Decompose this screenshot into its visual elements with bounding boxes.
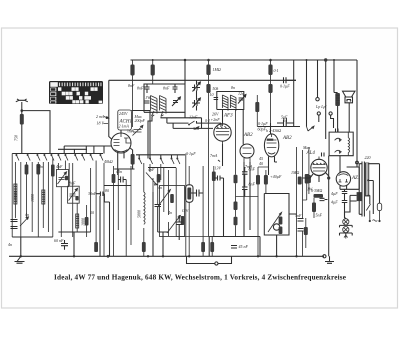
wire: mid box bottom <box>58 232 90 256</box>
svg-text:1W: 1W <box>307 187 313 192</box>
resistor tune3 <box>181 216 185 225</box>
terminal on bus right <box>323 255 326 258</box>
svg-text:220: 220 <box>365 155 371 160</box>
bottom sub-box <box>209 237 260 257</box>
svg-text:0·1: 0·1 <box>274 68 279 73</box>
IF1 caps left <box>145 84 150 93</box>
resistor 314 <box>312 203 316 213</box>
tube AB2 duo <box>264 134 278 157</box>
wire: mid link 185 <box>104 168 176 186</box>
svg-text:AB2: AB2 <box>282 136 292 141</box>
resistor horizontal 0.3M <box>314 194 324 198</box>
capacitor on OT <box>336 129 339 133</box>
svg-text:0·1: 0·1 <box>205 118 210 123</box>
wire: bottom ground bus <box>9 255 324 257</box>
circle jn right <box>356 161 359 164</box>
resistor 113.5 <box>112 174 116 183</box>
svg-text:5nF: 5nF <box>316 213 323 218</box>
capacitor 321 <box>320 198 328 200</box>
capacitor small b <box>176 215 183 240</box>
capacitor small a <box>155 205 162 233</box>
svg-text:5nF: 5nF <box>281 115 288 120</box>
PT primary winding <box>365 163 368 196</box>
resistor left A <box>25 165 29 175</box>
svg-text:40kΩ: 40kΩ <box>104 159 113 164</box>
trimmer Max200pF <box>131 125 143 135</box>
resistor 305.8 <box>304 227 308 235</box>
svg-text:Ideal, 4W 77 und Hagenuk, 648: Ideal, 4W 77 und Hagenuk, 648 KW, Wechse… <box>54 273 346 281</box>
resistor HT1 <box>130 65 134 76</box>
wire: AB2 bottom <box>244 162 250 237</box>
wire: det line <box>257 123 300 134</box>
svg-text:Max: Max <box>302 145 310 150</box>
svg-text:0·1µF: 0·1µF <box>280 84 290 89</box>
OT arrows <box>335 138 342 153</box>
junction dots on ground bus <box>20 255 298 257</box>
oscillator coil box <box>160 186 185 237</box>
wire: AF3 anode top <box>222 110 224 124</box>
IF1 winding P <box>151 96 167 114</box>
wire: band switch bus <box>12 153 103 155</box>
svg-text:5nF: 5nF <box>295 213 302 218</box>
tube ACH1 <box>111 133 131 153</box>
PT right leads <box>368 164 379 214</box>
resistor cathode ACH1 <box>131 154 135 165</box>
switch contacts row <box>16 155 174 164</box>
svg-text:4n: 4n <box>25 212 29 217</box>
wire: AZ1 bottom <box>340 167 359 191</box>
wire: AL4 lines <box>303 172 329 182</box>
wire: antenna lead <box>21 102 23 114</box>
ACH1 label frame <box>118 110 132 130</box>
speaker <box>343 91 356 103</box>
wire: ACH1 left inputs <box>64 146 111 154</box>
junction dot HT at 208.5 <box>207 59 210 62</box>
wire: v293.7 <box>293 60 295 123</box>
svg-text:30n: 30n <box>193 126 199 131</box>
wire: AB2 anode <box>242 110 244 145</box>
svg-text:7mA: 7mA <box>245 164 253 169</box>
mains wave mark <box>373 220 378 222</box>
IF1 caps right <box>173 84 178 93</box>
svg-text:20000: 20000 <box>13 191 18 201</box>
IF2 cap right <box>238 95 246 104</box>
svg-text:750: 750 <box>14 135 19 141</box>
ground left <box>15 256 25 263</box>
resistor 50k <box>206 84 210 93</box>
junction dot bus mid <box>107 255 110 258</box>
svg-text:2 mA: 2 mA <box>96 114 105 119</box>
svg-text:8n: 8n <box>231 85 235 90</box>
wires col 232.5 <box>236 110 259 237</box>
svg-text:1MΩ: 1MΩ <box>213 67 221 72</box>
resistor 1M <box>206 65 210 76</box>
coil L1 <box>14 184 17 204</box>
wire: heater run <box>345 201 351 218</box>
tube duo bottom leads <box>269 157 278 176</box>
coil L3 <box>76 214 79 228</box>
tap dots <box>367 180 369 182</box>
svg-text:30nF: 30nF <box>88 191 97 196</box>
resistor mains <box>377 203 381 210</box>
trimmer unit 1 <box>57 170 69 187</box>
coil L2 <box>42 190 45 204</box>
svg-text:26V: 26V <box>212 112 219 117</box>
svg-text:5000: 5000 <box>137 210 142 218</box>
svg-text:4n: 4n <box>8 242 12 247</box>
svg-text:50k: 50k <box>213 86 219 91</box>
verticals right-mid <box>297 147 309 256</box>
scattered value labels <box>25 83 371 217</box>
svg-text:0·1µF: 0·1µF <box>186 151 196 156</box>
PT heater winding <box>357 192 362 201</box>
terminal P2 <box>317 112 320 115</box>
svg-text:18 V: 18 V <box>97 121 105 126</box>
junction dot HT main <box>324 58 327 61</box>
band switch table S1 <box>49 81 103 104</box>
avc arrow <box>195 127 199 130</box>
left coil box verticals <box>12 154 48 238</box>
resistor above bus 3 <box>201 242 205 252</box>
svg-text:40n: 40n <box>37 164 43 169</box>
resistor pot a <box>279 217 283 225</box>
svg-text:4nF: 4nF <box>148 167 155 172</box>
top right verticals <box>307 60 358 164</box>
wire: coil feeder <box>58 146 94 154</box>
capacitor 5nF det <box>277 120 294 126</box>
capacitor 100 <box>97 192 110 257</box>
svg-text:0·3MΩ: 0·3MΩ <box>311 188 322 193</box>
wire: left box bottom <box>12 237 53 256</box>
tube AB2 small <box>240 144 254 162</box>
resistor det <box>255 102 259 112</box>
antenna <box>16 99 28 102</box>
resistor AL4 cathode <box>305 174 309 184</box>
capacitor 45nF <box>231 246 237 249</box>
resistor audio a <box>256 175 260 185</box>
wire: top HT bus <box>131 59 358 61</box>
junction dots on HT bus <box>152 59 335 61</box>
svg-text:1MΩ: 1MΩ <box>291 170 299 175</box>
field coil <box>335 93 340 106</box>
resistor left C <box>51 165 55 177</box>
wire: IF1 to grid AF3 <box>148 117 202 159</box>
resistor HT3 <box>268 65 272 76</box>
resistor col 232.5 lower <box>234 202 238 211</box>
svg-text:60 nF: 60 nF <box>54 238 64 243</box>
wire: avc line 128.4 <box>173 123 213 128</box>
svg-text:50: 50 <box>90 210 94 215</box>
volume box <box>264 194 289 236</box>
resistor col 232.5 upper <box>234 175 238 184</box>
capacitor 4uF b <box>342 201 348 219</box>
svg-text:h 2-43kΩ: h 2-43kΩ <box>266 128 281 133</box>
capacitor 60nF <box>61 240 68 250</box>
resistor mid3 <box>85 217 89 226</box>
wire: screen-grid bus <box>109 79 296 81</box>
pot arrow <box>268 212 282 232</box>
wire: speaker voice coil <box>348 103 350 132</box>
svg-text:10: 10 <box>210 92 214 97</box>
svg-text:45 nF: 45 nF <box>239 244 249 249</box>
svg-text:GW: GW <box>182 208 189 213</box>
capacitor 218 <box>214 176 224 237</box>
capacitor osc <box>191 190 203 197</box>
IF1 secondary leads <box>152 111 164 117</box>
dial lamp 2 <box>343 227 349 233</box>
IF transformer 1 can <box>144 84 185 112</box>
ground right <box>325 256 334 263</box>
svg-text:AL4: AL4 <box>306 151 316 156</box>
resistor 299.7 <box>298 177 302 185</box>
wire: mid cluster bottom joins <box>153 192 169 256</box>
wire: osc coupling verticals <box>185 80 197 123</box>
resistor left B <box>36 164 40 175</box>
svg-text:8nF: 8nF <box>69 181 76 186</box>
trimmer mid5 <box>158 164 171 215</box>
resistor osc <box>187 188 191 200</box>
resistor HT2 <box>151 65 155 76</box>
resistor tune2 <box>170 194 174 203</box>
capacitor 8nF c <box>242 172 248 174</box>
wire: left box right edge <box>52 158 54 237</box>
wire: det line 123 <box>167 118 221 126</box>
resistor above bus 4 <box>210 242 214 252</box>
capacitor 4uF a <box>342 192 348 201</box>
lamp ground <box>344 235 348 238</box>
svg-text:+2nF: +2nF <box>211 117 221 122</box>
svg-text:12n: 12n <box>238 91 244 96</box>
terminal P3 <box>329 112 332 115</box>
wire: AL4 cathode bus <box>328 156 330 257</box>
trimmer mid4 <box>146 164 158 204</box>
svg-text:40n: 40n <box>116 169 122 174</box>
svg-text:245V: 245V <box>119 111 128 116</box>
svg-text:8nF: 8nF <box>128 83 135 88</box>
svg-text:8nF: 8nF <box>163 86 170 91</box>
output transformer box <box>329 132 353 156</box>
wire: Lp leads <box>319 115 334 128</box>
coil 5000 <box>144 163 145 242</box>
svg-text:4µF: 4µF <box>331 191 338 196</box>
trimmer mid6 <box>167 168 180 236</box>
junction dot HT at 270 <box>269 59 272 62</box>
caps 5nF pair <box>298 219 304 232</box>
svg-text:40: 40 <box>259 161 263 166</box>
capacitor left stack 1 <box>11 220 18 222</box>
trimmer pair right of IF1 <box>192 82 200 92</box>
IF transformer 2 can <box>217 92 244 110</box>
capacitor above duo <box>284 118 287 122</box>
svg-text:Lp Lp′: Lp Lp′ <box>315 104 326 109</box>
svg-text:4n: 4n <box>168 210 172 215</box>
tube AL4 <box>311 157 327 176</box>
resistor above bus 2 <box>142 242 146 252</box>
junction dot AL4 <box>327 176 330 179</box>
OT winding <box>348 132 349 156</box>
wire: antenna to band switch bus <box>22 111 50 154</box>
wire: anode ACH1 riser <box>121 111 150 159</box>
terminal P1 <box>316 98 319 101</box>
svg-text:+40µF: +40µF <box>270 174 282 179</box>
trimmer arrow left <box>20 217 29 226</box>
resistor pot b <box>279 227 283 235</box>
svg-text:AB2: AB2 <box>243 133 253 138</box>
mid coil section verticals <box>58 161 131 257</box>
resistor audio b <box>264 175 268 185</box>
lamp rails <box>340 218 353 236</box>
power transformer core <box>362 162 364 217</box>
IF2 cap left <box>214 98 219 100</box>
resistor 213.8 <box>212 172 216 182</box>
capacitor left stack 2 <box>11 227 18 229</box>
svg-text:8nF: 8nF <box>137 86 144 91</box>
wire: AF3 cathode down <box>218 144 223 166</box>
resistor col 232.5 third <box>234 217 238 226</box>
svg-text:1000: 1000 <box>30 194 35 202</box>
mains switch <box>366 204 370 221</box>
switch tone <box>307 126 315 131</box>
resistor above bus 1 <box>94 242 98 252</box>
svg-text:4nF: 4nF <box>56 164 63 169</box>
svg-text:4n: 4n <box>158 185 162 190</box>
svg-text:200pF: 200pF <box>135 118 146 123</box>
svg-text:80: 80 <box>105 188 109 193</box>
wire: cathode <box>114 148 134 176</box>
svg-text:12nF: 12nF <box>189 115 198 120</box>
svg-text:JW: JW <box>146 95 152 100</box>
wire: lower terminal link <box>187 256 232 263</box>
svg-text:4µF: 4µF <box>331 200 338 205</box>
resistor HT4 <box>268 84 272 93</box>
svg-text:AF3: AF3 <box>223 114 233 119</box>
switch contact det <box>189 121 195 125</box>
wire: osc vertical <box>185 154 187 257</box>
capacitor on H2 <box>284 77 297 83</box>
IF2 winding <box>222 95 236 111</box>
PT left leads <box>350 164 362 215</box>
capacitor AL4 <box>322 153 325 157</box>
dial lamp 1 <box>343 219 349 225</box>
capacitor 8nF d <box>242 187 248 190</box>
wire: IF1 feed riser <box>184 60 186 84</box>
wire: AZ1 top <box>340 156 357 173</box>
tube AF3 <box>214 124 231 144</box>
contact extra <box>177 155 180 164</box>
capacitor 120 <box>118 177 126 183</box>
terminal Erde <box>215 262 218 265</box>
wire: audio couplings <box>277 214 297 256</box>
svg-text:0·1µF: 0·1µF <box>258 121 268 126</box>
svg-text:13V: 13V <box>215 166 222 171</box>
wire: right contact feeder <box>136 155 185 159</box>
resistor 750 <box>20 114 24 125</box>
arrows at ACH1 <box>104 117 109 124</box>
svg-text:7mA: 7mA <box>210 153 218 158</box>
tube AZ1 <box>336 172 350 186</box>
resistor 308.9 <box>307 175 311 183</box>
trimmer unit 2 <box>68 186 80 203</box>
resistor tune1 <box>157 174 161 183</box>
wire: grid feed ACH1 <box>109 80 112 139</box>
pot circle <box>273 224 279 230</box>
